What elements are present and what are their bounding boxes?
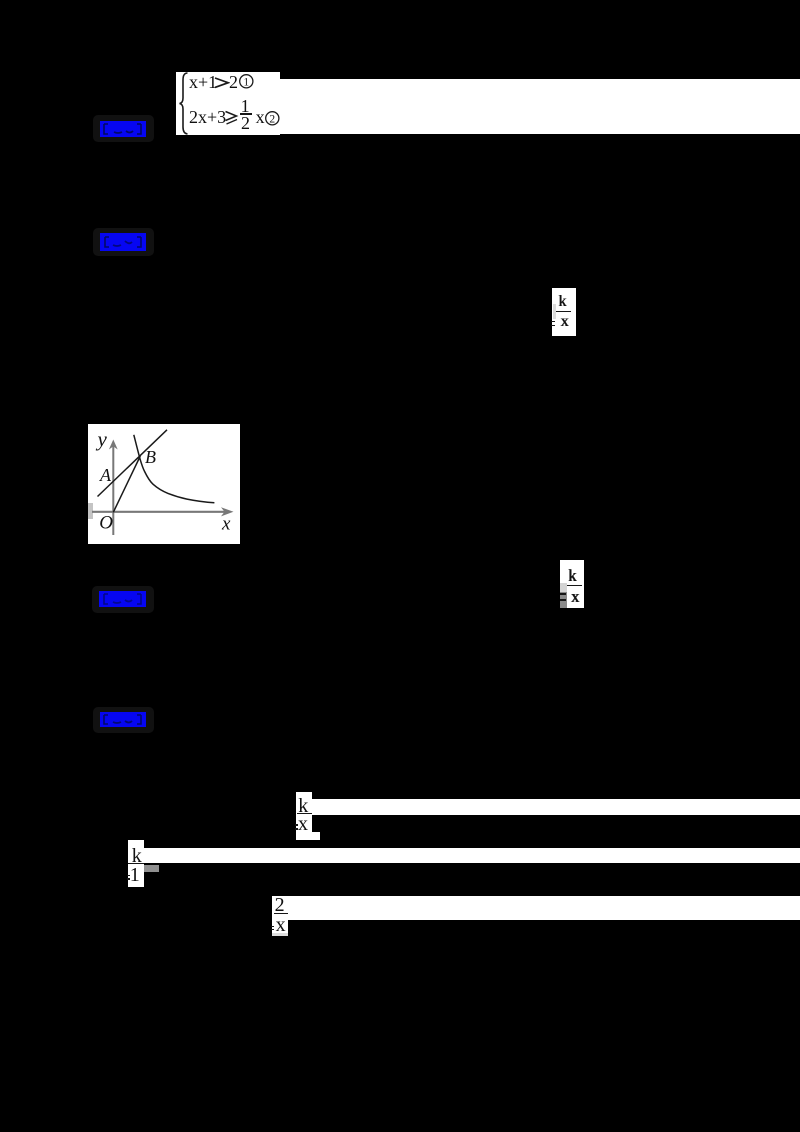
- inequality line 1: x+1>2: [189, 73, 217, 91]
- label highlight 2 (blue): [100, 233, 146, 251]
- partial equals sign: [560, 593, 567, 595]
- y axis: [112, 443, 114, 535]
- svg-text:1: 1: [243, 77, 249, 89]
- fraction k/x row with long strip: [296, 792, 312, 840]
- x after fraction: [256, 108, 265, 126]
- hyperbola: [134, 435, 215, 503]
- halo 3: [92, 586, 154, 613]
- circled 2: [265, 111, 280, 126]
- label highlight 4 (blue): [100, 712, 146, 727]
- x axis: [92, 511, 229, 513]
- partial equals sign: [551, 321, 555, 322]
- fraction 1/2: [241, 97, 250, 115]
- >= symbol: [224, 110, 239, 125]
- top formula white panel: [176, 72, 280, 135]
- svg-text:x: x: [221, 513, 231, 534]
- line AB: [98, 430, 168, 497]
- x axis arrowhead: [221, 507, 234, 516]
- figure panel: [88, 424, 240, 544]
- inline formula = k/x (first) white box: [552, 288, 576, 336]
- fraction 2/x row with long strip: [272, 896, 288, 936]
- fraction k/1 row with long strip: [128, 840, 144, 887]
- inequality line 2: 2x+3 >= (1/2)x: [189, 108, 226, 126]
- svg-text:O: O: [99, 512, 113, 533]
- left edge gray blob: [88, 503, 93, 519]
- top line highlight strip: [280, 79, 800, 134]
- inline formula = k/x (second) white box: [560, 560, 584, 608]
- system brace: [176, 72, 192, 135]
- line OB: [113, 456, 140, 512]
- y axis arrowhead: [109, 440, 118, 450]
- circled 1: [239, 74, 254, 89]
- label highlight 1 (blue): [100, 121, 146, 137]
- svg-text:2: 2: [270, 114, 276, 126]
- label highlight 3 (blue): [99, 591, 146, 607]
- halo 2: [93, 228, 154, 256]
- halo 1: [93, 115, 154, 142]
- svg-text:B: B: [145, 447, 156, 467]
- svg-text:y: y: [96, 427, 108, 451]
- halo 4: [93, 707, 154, 733]
- svg-text:A: A: [99, 465, 112, 485]
